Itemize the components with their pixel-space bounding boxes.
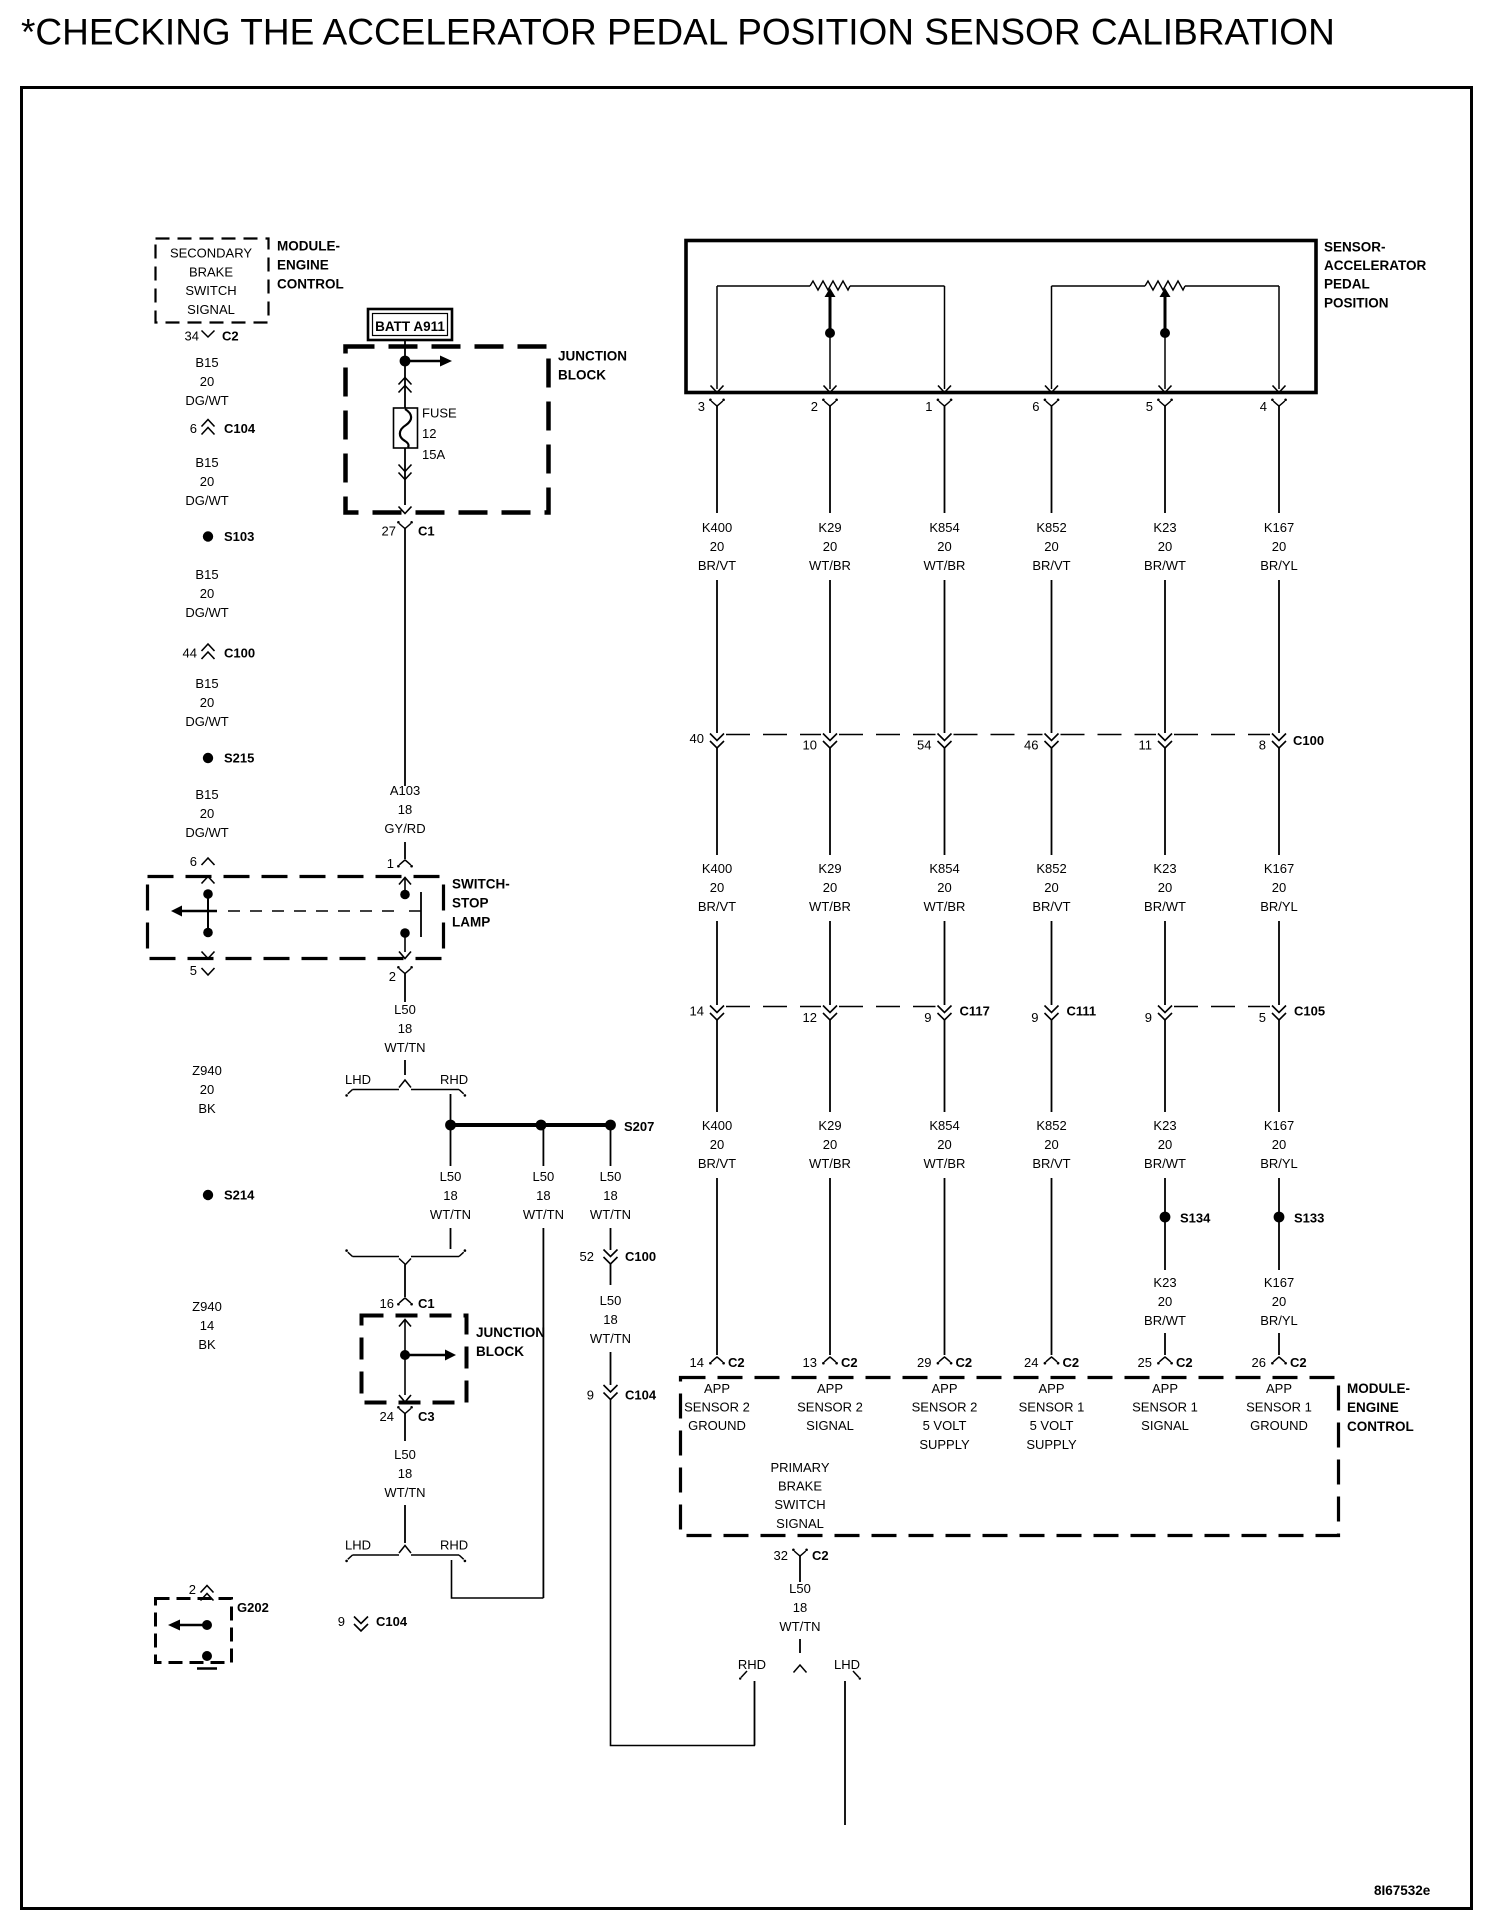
switch-stop lamp pin 6 — [190, 854, 215, 884]
svg-text:SIGNAL: SIGNAL — [776, 1516, 824, 1531]
wire RHD branch (riser to branch C) — [754, 1681, 756, 1746]
svg-text:20: 20 — [823, 1137, 837, 1152]
svg-text:12: 12 — [803, 1010, 817, 1025]
svg-text:CONTROL: CONTROL — [277, 277, 344, 292]
svg-text:Z940: Z940 — [192, 1063, 222, 1078]
svg-text:C104: C104 — [224, 421, 256, 436]
wire K29 20 WT/BR (sensor pin 2 to PCM) — [809, 415, 851, 1355]
svg-text:14: 14 — [690, 1355, 704, 1370]
wire B15 20 DG/WT segment 4 (label) — [185, 676, 228, 729]
wire Z940 20 BK (implied ground run label) — [192, 1063, 222, 1116]
svg-text:13: 13 — [803, 1355, 817, 1370]
svg-text:6: 6 — [190, 854, 197, 869]
sensor pin 3 — [698, 386, 725, 416]
switch-stop lamp pin 5 — [190, 952, 215, 979]
svg-text:20: 20 — [710, 539, 724, 554]
svg-text:POSITION: POSITION — [1324, 295, 1389, 310]
svg-text:20: 20 — [1158, 1294, 1172, 1309]
svg-text:SECONDARY: SECONDARY — [170, 246, 252, 261]
svg-text:15A: 15A — [422, 447, 445, 462]
svg-text:DG/WT: DG/WT — [185, 393, 228, 408]
stop lamp switch armature (wiper arm with actuation arrow) — [171, 889, 396, 937]
wire branch C to bottom RHD riser — [611, 1400, 756, 1746]
svg-text:C2: C2 — [841, 1355, 858, 1370]
svg-text:32: 32 — [774, 1548, 788, 1563]
svg-text:20: 20 — [200, 695, 214, 710]
svg-text:2: 2 — [389, 969, 396, 984]
svg-text:*CHECKING THE ACCELERATOR PEDA: *CHECKING THE ACCELERATOR PEDAL POSITION… — [21, 12, 1335, 53]
wire B15 20 DG/WT segment 1 (label) — [185, 355, 228, 408]
svg-text:SUPPLY: SUPPLY — [919, 1437, 970, 1452]
stop lamp switch output node (node + arrow down) — [399, 928, 411, 958]
svg-text:C1: C1 — [418, 524, 435, 539]
switch-stop lamp pin 1 — [387, 856, 413, 871]
svg-text:B15: B15 — [195, 567, 218, 582]
svg-text:9: 9 — [1031, 1010, 1038, 1025]
connector C2 pin 14 — [690, 1355, 745, 1370]
svg-text:46: 46 — [1024, 738, 1038, 753]
svg-text:5 VOLT: 5 VOLT — [923, 1418, 967, 1433]
svg-text:C2: C2 — [812, 1548, 829, 1563]
svg-text:2: 2 — [189, 1582, 196, 1597]
wire K400 20 BR/VT (sensor pin 3 to PCM) — [698, 415, 736, 1355]
wire L50 18 WT/TN (C100 to C104) — [590, 1264, 631, 1385]
svg-text:20: 20 — [1044, 880, 1058, 895]
pin function label: APP SENSOR 2 5 VOLT SUPPLY — [912, 1381, 978, 1452]
svg-text:24: 24 — [1024, 1355, 1038, 1370]
svg-text:APP: APP — [817, 1381, 843, 1396]
wire L50 18 WT/TN branch A (to merge) — [430, 1125, 471, 1249]
svg-text:SIGNAL: SIGNAL — [187, 302, 235, 317]
connector C2 pin 29 — [917, 1355, 972, 1370]
svg-text:20: 20 — [200, 586, 214, 601]
sensor pin 2 — [811, 386, 838, 416]
svg-text:SWITCH: SWITCH — [774, 1497, 825, 1512]
junction block box (lower) — [362, 1316, 546, 1403]
svg-text:C2: C2 — [1290, 1355, 1307, 1370]
svg-text:5 VOLT: 5 VOLT — [1030, 1418, 1074, 1433]
wire K167 20 BR/YL (sensor pin 4 to PCM) — [1260, 415, 1298, 1355]
svg-text:8: 8 — [1259, 738, 1266, 753]
svg-text:L50: L50 — [533, 1169, 555, 1184]
svg-text:BR/WT: BR/WT — [1144, 1156, 1186, 1171]
svg-text:16: 16 — [380, 1296, 394, 1311]
pin function label: APP SENSOR 1 SIGNAL — [1132, 1381, 1198, 1433]
svg-text:APP: APP — [1266, 1381, 1292, 1396]
junction block connector (chevrons down) — [399, 448, 412, 505]
pin function label: APP SENSOR 1 5 VOLT SUPPLY — [1019, 1381, 1085, 1452]
svg-text:LHD: LHD — [345, 1538, 371, 1553]
connector C3 pin 24 — [380, 1406, 435, 1428]
svg-text:S133: S133 — [1294, 1211, 1324, 1226]
svg-text:K167: K167 — [1264, 1275, 1294, 1290]
svg-text:29: 29 — [917, 1355, 931, 1370]
svg-text:9: 9 — [1145, 1010, 1152, 1025]
svg-text:WT/BR: WT/BR — [809, 558, 851, 573]
harness split LHD/RHD (below stop lamp) — [345, 1072, 468, 1097]
pin function label: APP SENSOR 2 GROUND — [684, 1381, 750, 1433]
wire B15 20 DG/WT segment 3 (label) — [185, 567, 228, 620]
svg-text:BK: BK — [198, 1337, 216, 1352]
svg-text:C2: C2 — [728, 1355, 745, 1370]
svg-text:LAMP: LAMP — [452, 915, 490, 930]
svg-text:K400: K400 — [702, 520, 732, 535]
svg-text:B15: B15 — [195, 676, 218, 691]
svg-text:6: 6 — [1032, 399, 1039, 414]
svg-text:K23: K23 — [1153, 1275, 1176, 1290]
svg-text:WT/BR: WT/BR — [809, 1156, 851, 1171]
svg-text:APP: APP — [1152, 1381, 1178, 1396]
svg-text:18: 18 — [603, 1188, 617, 1203]
module U1: MODULE-ENGINE CONTROL box (bottom) — [681, 1378, 1414, 1536]
svg-text:G202: G202 — [237, 1600, 269, 1615]
APP sensor 1 potentiometer (pins 6-5-4) — [1052, 281, 1280, 389]
pin function label: APP SENSOR 2 SIGNAL — [797, 1381, 863, 1433]
svg-text:ENGINE: ENGINE — [1347, 1400, 1399, 1415]
svg-text:C111: C111 — [1067, 1004, 1097, 1019]
svg-text:5: 5 — [1146, 399, 1153, 414]
wire Z940 14 BK (implied ground run label) — [192, 1299, 222, 1352]
svg-text:C2: C2 — [956, 1355, 973, 1370]
svg-text:CONTROL: CONTROL — [1347, 1419, 1414, 1434]
wire K852 20 BR/VT (sensor pin 6 to PCM) — [1032, 415, 1070, 1355]
splice S133 — [1274, 1211, 1325, 1226]
svg-text:24: 24 — [380, 1409, 394, 1424]
stop lamp switch fixed contact — [409, 892, 421, 937]
svg-text:18: 18 — [603, 1312, 617, 1327]
svg-text:1: 1 — [925, 399, 932, 414]
svg-text:RHD: RHD — [738, 1657, 766, 1672]
in-line connector C105 (pins 9,5) — [1145, 1004, 1325, 1026]
svg-text:SWITCH-: SWITCH- — [452, 877, 510, 892]
svg-text:GROUND: GROUND — [688, 1418, 746, 1433]
svg-text:JUNCTION: JUNCTION — [558, 349, 627, 364]
svg-text:DG/WT: DG/WT — [185, 605, 228, 620]
svg-text:FUSE: FUSE — [422, 406, 457, 421]
svg-text:6: 6 — [190, 421, 197, 436]
splice S214 — [203, 1188, 255, 1203]
wire K854 20 WT/BR (sensor pin 1 to PCM) — [924, 415, 966, 1355]
svg-text:K167: K167 — [1264, 1118, 1294, 1133]
svg-text:BRAKE: BRAKE — [778, 1479, 822, 1494]
svg-text:34: 34 — [185, 329, 199, 344]
svg-text:L50: L50 — [600, 1293, 622, 1308]
svg-text:20: 20 — [200, 474, 214, 489]
svg-text:APP: APP — [1038, 1381, 1064, 1396]
svg-text:K167: K167 — [1264, 520, 1294, 535]
svg-text:K854: K854 — [929, 1118, 959, 1133]
svg-text:WT/TN: WT/TN — [590, 1207, 631, 1222]
svg-text:K854: K854 — [929, 861, 959, 876]
svg-text:WT/TN: WT/TN — [590, 1331, 631, 1346]
svg-text:S214: S214 — [224, 1188, 255, 1203]
svg-text:BK: BK — [198, 1101, 216, 1116]
svg-text:BLOCK: BLOCK — [558, 368, 606, 383]
svg-text:BR/YL: BR/YL — [1260, 1156, 1298, 1171]
svg-text:C100: C100 — [224, 646, 255, 661]
svg-text:20: 20 — [937, 880, 951, 895]
svg-text:20: 20 — [200, 1082, 214, 1097]
svg-text:20: 20 — [1272, 880, 1286, 895]
svg-text:WT/BR: WT/BR — [809, 899, 851, 914]
wire B15 20 DG/WT segment 5 (label) — [185, 787, 228, 840]
svg-text:54: 54 — [917, 738, 931, 753]
connector C2 pin 13 — [803, 1355, 858, 1370]
connector C2 pin 24 — [1024, 1355, 1079, 1370]
svg-text:GROUND: GROUND — [1250, 1418, 1308, 1433]
svg-text:18: 18 — [793, 1600, 807, 1615]
svg-text:WT/TN: WT/TN — [430, 1207, 471, 1222]
harness merge LHD/RHD (above junction block) — [345, 1249, 466, 1264]
harness split LHD/RHD (bottom left) — [345, 1538, 468, 1563]
sensor: SENSOR-ACCELERATOR PEDAL POSITION box — [686, 240, 1427, 393]
svg-text:C117: C117 — [960, 1004, 990, 1019]
svg-text:DG/WT: DG/WT — [185, 493, 228, 508]
svg-text:20: 20 — [200, 806, 214, 821]
svg-text:ACCELERATOR: ACCELERATOR — [1324, 258, 1427, 273]
svg-text:L50: L50 — [394, 1002, 416, 1017]
svg-text:K23: K23 — [1153, 520, 1176, 535]
svg-text:C100: C100 — [1293, 733, 1324, 748]
sensor pin 5 — [1146, 386, 1173, 416]
sensor pin 6 — [1032, 386, 1059, 416]
svg-text:RHD: RHD — [440, 1538, 468, 1553]
splice S103 — [203, 529, 255, 544]
svg-text:RHD: RHD — [440, 1072, 468, 1087]
svg-text:K852: K852 — [1036, 1118, 1066, 1133]
junction block bus tap (node + feed arrow) — [400, 356, 452, 367]
connector C104 pin 9 (RHD run) — [587, 1385, 657, 1403]
svg-text:20: 20 — [1272, 539, 1286, 554]
wire L50 18 WT/TN (from C2 pin 32) — [779, 1575, 820, 1653]
svg-text:C3: C3 — [418, 1409, 435, 1424]
svg-text:SENSOR 2: SENSOR 2 — [684, 1400, 750, 1415]
wire L50 18 WT/TN branch C (S207 down) — [590, 1125, 631, 1250]
svg-text:20: 20 — [200, 374, 214, 389]
svg-text:20: 20 — [1158, 880, 1172, 895]
svg-text:SENSOR 1: SENSOR 1 — [1132, 1400, 1198, 1415]
svg-text:B15: B15 — [195, 455, 218, 470]
svg-text:SIGNAL: SIGNAL — [1141, 1418, 1189, 1433]
wire B15 20 DG/WT segment 2 (label) — [185, 455, 228, 508]
wire BATT A911 to junction block — [404, 340, 406, 361]
svg-text:3: 3 — [698, 399, 705, 414]
sensor pin 4 — [1260, 386, 1287, 416]
svg-text:BR/VT: BR/VT — [698, 1156, 736, 1171]
svg-text:18: 18 — [536, 1188, 550, 1203]
svg-text:C105: C105 — [1294, 1004, 1325, 1019]
svg-text:BATT A911: BATT A911 — [375, 319, 445, 334]
svg-text:18: 18 — [398, 1021, 412, 1036]
splice S134 — [1160, 1211, 1212, 1226]
connector C2 pin 25 — [1138, 1355, 1193, 1370]
svg-text:44: 44 — [183, 646, 197, 661]
svg-text:L50: L50 — [440, 1169, 462, 1184]
wire L50 18 WT/TN (below C3) — [384, 1428, 425, 1543]
APP sensor 2 potentiometer (pins 3-2-1) — [717, 281, 945, 389]
power feed BATT A911 — [368, 309, 452, 340]
svg-text:C104: C104 — [625, 1388, 657, 1403]
junction block (lower) internals: chevron, node, feed arrow — [399, 1320, 456, 1403]
fuse 12 15A — [394, 406, 458, 463]
in-line connector C100 (pins 40,10,54,46,11,8) — [690, 731, 1325, 753]
svg-text:9: 9 — [587, 1388, 594, 1403]
svg-text:BR/YL: BR/YL — [1260, 899, 1298, 914]
svg-text:SENSOR-: SENSOR- — [1324, 240, 1386, 255]
wire to junction block connector C1 pin 16 — [404, 1265, 406, 1298]
module U1: MODULE-ENGINE CONTROL (secondary brake switch signal stub) — [156, 239, 344, 323]
svg-text:PRIMARY: PRIMARY — [771, 1460, 830, 1475]
svg-text:C2: C2 — [222, 329, 239, 344]
ground G202 pin 2 — [189, 1582, 214, 1601]
wire K23 20 BR/WT (sensor pin 5 to PCM) — [1144, 415, 1186, 1355]
svg-text:K854: K854 — [929, 520, 959, 535]
svg-text:STOP: STOP — [452, 896, 489, 911]
svg-text:B15: B15 — [195, 787, 218, 802]
svg-text:20: 20 — [823, 539, 837, 554]
svg-text:26: 26 — [1252, 1355, 1266, 1370]
svg-text:BR/VT: BR/VT — [1032, 1156, 1070, 1171]
svg-text:20: 20 — [1272, 1294, 1286, 1309]
connector C2 pin 26 — [1252, 1355, 1307, 1370]
svg-text:52: 52 — [580, 1249, 594, 1264]
svg-text:WT/BR: WT/BR — [924, 899, 966, 914]
svg-text:BRAKE: BRAKE — [189, 264, 233, 279]
svg-text:SENSOR 2: SENSOR 2 — [797, 1400, 863, 1415]
switch-stop lamp pin 2 — [389, 966, 413, 989]
svg-text:C2: C2 — [1176, 1355, 1193, 1370]
svg-text:SIGNAL: SIGNAL — [806, 1418, 854, 1433]
svg-text:20: 20 — [1044, 1137, 1058, 1152]
svg-text:L50: L50 — [789, 1581, 811, 1596]
svg-text:K167: K167 — [1264, 861, 1294, 876]
svg-text:LHD: LHD — [345, 1072, 371, 1087]
svg-text:C104: C104 — [376, 1614, 408, 1629]
in-line connector C117 (pins 14,12,9) — [690, 1004, 990, 1026]
svg-text:20: 20 — [1158, 1137, 1172, 1152]
svg-text:2: 2 — [811, 399, 818, 414]
svg-text:20: 20 — [1044, 539, 1058, 554]
svg-text:B15: B15 — [195, 355, 218, 370]
svg-text:BR/YL: BR/YL — [1260, 558, 1298, 573]
wire RHD drop to splice bus — [450, 1094, 452, 1125]
connector C2 pin 32 — [774, 1548, 829, 1575]
connector C100 pin 44 — [183, 644, 256, 661]
svg-text:BR/VT: BR/VT — [1032, 558, 1070, 573]
in-line connector C111 (pin 9) — [1031, 1004, 1096, 1026]
svg-text:C1: C1 — [418, 1296, 435, 1311]
svg-text:BR/VT: BR/VT — [698, 899, 736, 914]
svg-text:K400: K400 — [702, 1118, 732, 1133]
pin function label: APP SENSOR 1 GROUND — [1246, 1381, 1312, 1433]
harness split RHD/LHD (bottom centre) — [738, 1657, 861, 1680]
svg-text:DG/WT: DG/WT — [185, 714, 228, 729]
svg-text:JUNCTION: JUNCTION — [476, 1325, 545, 1340]
svg-text:S207: S207 — [624, 1119, 654, 1134]
wire A103 18 GY/RD — [384, 529, 425, 860]
svg-text:14: 14 — [690, 1004, 704, 1019]
connector C2 pin 34 — [185, 329, 239, 344]
svg-text:5: 5 — [1259, 1010, 1266, 1025]
svg-text:WT/TN: WT/TN — [779, 1619, 820, 1634]
junction block box (upper) — [346, 347, 628, 513]
svg-text:PEDAL: PEDAL — [1324, 277, 1370, 292]
svg-text:C2: C2 — [1063, 1355, 1080, 1370]
svg-text:ENGINE: ENGINE — [277, 258, 329, 273]
svg-text:20: 20 — [710, 1137, 724, 1152]
svg-text:WT/BR: WT/BR — [924, 558, 966, 573]
svg-text:SENSOR 1: SENSOR 1 — [1246, 1400, 1312, 1415]
svg-text:25: 25 — [1138, 1355, 1152, 1370]
pin function label: PRIMARY BRAKE SWITCH SIGNAL — [771, 1460, 830, 1531]
svg-text:18: 18 — [443, 1188, 457, 1203]
svg-text:18: 18 — [398, 1466, 412, 1481]
svg-text:K29: K29 — [818, 861, 841, 876]
splice S215 — [203, 751, 255, 766]
stop lamp switch input pin node (arrow up + node) — [399, 878, 411, 900]
svg-text:WT/BR: WT/BR — [924, 1156, 966, 1171]
svg-text:12: 12 — [422, 426, 436, 441]
svg-text:S134: S134 — [1180, 1211, 1211, 1226]
svg-text:20: 20 — [710, 880, 724, 895]
svg-text:18: 18 — [398, 802, 412, 817]
svg-text:20: 20 — [937, 539, 951, 554]
svg-text:L50: L50 — [600, 1169, 622, 1184]
junction block connector (chevrons up) — [399, 366, 412, 408]
svg-text:9: 9 — [924, 1010, 931, 1025]
sensor pin 1 — [925, 386, 952, 416]
svg-text:S215: S215 — [224, 751, 254, 766]
svg-text:40: 40 — [690, 731, 704, 746]
wire L50 18 WT/TN branch B (S207 to RHD jog) — [523, 1125, 564, 1598]
ground G202 — [156, 1599, 269, 1669]
svg-text:BR/YL: BR/YL — [1260, 1313, 1298, 1328]
svg-text:L50: L50 — [394, 1447, 416, 1462]
svg-text:WT/TN: WT/TN — [523, 1207, 564, 1222]
svg-text:20: 20 — [1158, 539, 1172, 554]
connector C1 pin 16 — [380, 1296, 435, 1311]
wire L50 18 WT/TN from stop lamp pin 2 — [384, 989, 425, 1076]
svg-text:11: 11 — [1139, 738, 1153, 753]
svg-text:SENSOR 1: SENSOR 1 — [1019, 1400, 1085, 1415]
svg-text:BLOCK: BLOCK — [476, 1344, 524, 1359]
connector C100 pin 52 — [580, 1249, 657, 1264]
svg-text:5: 5 — [190, 963, 197, 978]
wire RHD jog to branch B — [452, 1560, 544, 1598]
svg-text:4: 4 — [1260, 399, 1267, 414]
svg-text:8I67532e: 8I67532e — [1374, 1883, 1431, 1898]
svg-text:K29: K29 — [818, 520, 841, 535]
svg-text:27: 27 — [382, 524, 396, 539]
svg-text:K852: K852 — [1036, 520, 1066, 535]
svg-text:BR/WT: BR/WT — [1144, 899, 1186, 914]
svg-text:20: 20 — [1272, 1137, 1286, 1152]
svg-text:SUPPLY: SUPPLY — [1026, 1437, 1077, 1452]
svg-text:SWITCH: SWITCH — [185, 283, 236, 298]
svg-text:A103: A103 — [390, 783, 420, 798]
svg-text:K23: K23 — [1153, 1118, 1176, 1133]
svg-text:BR/VT: BR/VT — [1032, 899, 1070, 914]
svg-text:WT/TN: WT/TN — [384, 1040, 425, 1055]
svg-text:10: 10 — [803, 738, 817, 753]
svg-text:9: 9 — [338, 1614, 345, 1629]
svg-text:K852: K852 — [1036, 861, 1066, 876]
svg-text:K400: K400 — [702, 861, 732, 876]
svg-text:BR/WT: BR/WT — [1144, 1313, 1186, 1328]
junction block output chevron at box edge — [399, 507, 412, 514]
svg-text:MODULE-: MODULE- — [277, 239, 340, 254]
connector C1 pin 27 — [382, 521, 435, 539]
